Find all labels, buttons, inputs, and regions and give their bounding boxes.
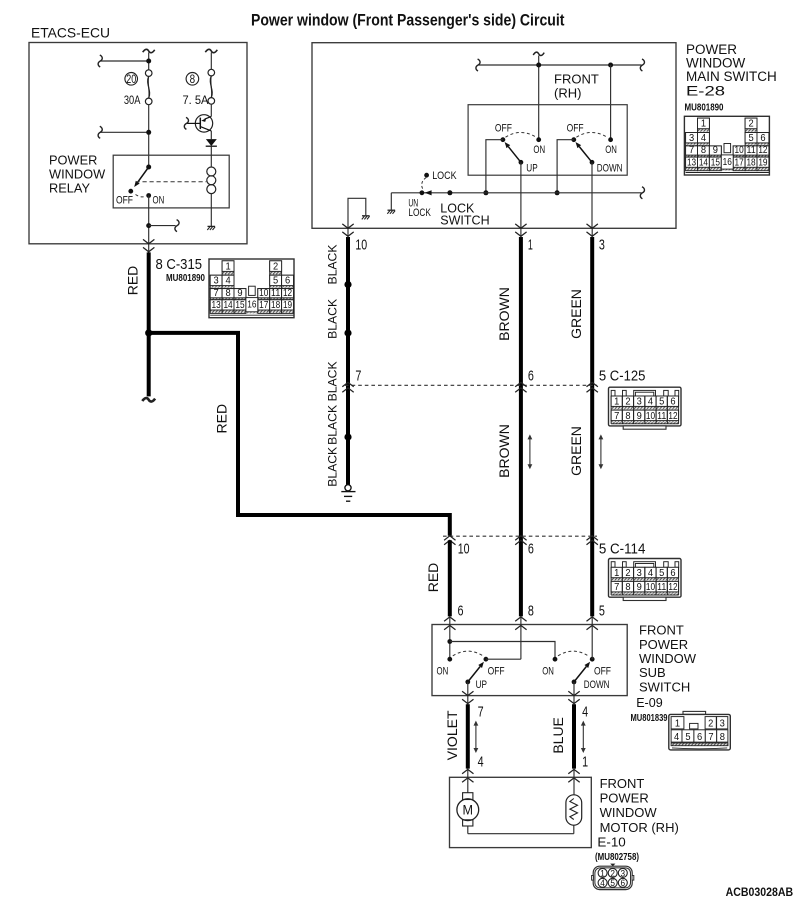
svg-text:4: 4 — [648, 396, 653, 408]
svg-text:MAIN SWITCH: MAIN SWITCH — [686, 69, 777, 84]
svg-text:DOWN: DOWN — [597, 162, 623, 174]
svg-text:RED: RED — [125, 266, 141, 296]
svg-text:LOCK: LOCK — [408, 207, 431, 219]
svg-text:1: 1 — [582, 753, 588, 770]
wire: motor to circuit breaker — [467, 826, 469, 834]
chevrons at C-125 black pin 7 — [342, 382, 353, 386]
svg-text:WINDOW: WINDOW — [600, 805, 658, 820]
svg-text:(MU802758): (MU802758) — [595, 851, 639, 863]
svg-text:6: 6 — [458, 602, 464, 619]
svg-text:FRONT: FRONT — [600, 776, 645, 791]
dashed travel arc DOWN switch — [576, 132, 607, 137]
svg-text:POWER: POWER — [639, 637, 688, 652]
wire: sub UP common to pin 7 — [467, 682, 469, 696]
wire: DOWN OFF contact to lock bus — [557, 140, 574, 193]
svg-text:8: 8 — [720, 731, 725, 743]
svg-text:12: 12 — [283, 287, 292, 299]
svg-text:13: 13 — [687, 156, 696, 168]
svg-text:8: 8 — [528, 602, 534, 619]
chevrons at C-125 brown pin 6 — [515, 382, 526, 386]
svg-text:13: 13 — [212, 299, 221, 311]
node: stub junction lower — [100, 131, 149, 133]
UP switch ON contact — [536, 137, 541, 142]
lock switch LOCK contact — [424, 173, 429, 178]
node: RED junction — [145, 329, 152, 336]
svg-text:11: 11 — [746, 144, 755, 156]
svg-text:8: 8 — [190, 74, 196, 86]
svg-text:E-10: E-10 — [597, 835, 625, 850]
dashed travel arc relay OFF-ON — [136, 195, 147, 197]
svg-text:7: 7 — [689, 144, 694, 156]
node: feed junction — [447, 639, 452, 644]
UP switch OFF contact — [501, 137, 506, 142]
dashed travel arc sub DOWN — [558, 651, 588, 656]
svg-text:16: 16 — [247, 299, 256, 311]
wire: battery into main switch (squiggle top) — [533, 52, 544, 55]
sub DOWN switch common — [572, 680, 577, 685]
bus wire across top of main switch — [479, 64, 642, 66]
svg-text:OFF: OFF — [116, 195, 133, 207]
svg-text:2: 2 — [708, 718, 713, 730]
lock switch pivot node — [447, 190, 452, 195]
relay ON contact — [146, 193, 151, 198]
svg-text:6: 6 — [528, 367, 534, 384]
node: stub junction upper — [100, 60, 149, 62]
svg-text:30A: 30A — [124, 93, 140, 107]
svg-text:8: 8 — [625, 581, 630, 593]
svg-text:5: 5 — [659, 396, 664, 408]
ground: relay coil chassis ground — [208, 225, 216, 227]
front power window motor box (E-10) — [450, 777, 592, 847]
diode D1 — [206, 139, 217, 146]
wire: main switch internal ground L (pin 10) — [348, 198, 366, 228]
svg-text:MU801890: MU801890 — [685, 102, 724, 114]
wire: bus to DOWN switch ON contact — [610, 65, 612, 140]
svg-text:3: 3 — [599, 236, 605, 253]
svg-text:5: 5 — [685, 731, 690, 743]
svg-text:WINDOW: WINDOW — [639, 651, 697, 666]
svg-text:ON: ON — [542, 666, 554, 678]
svg-text:8: 8 — [225, 287, 230, 299]
DOWN switch ON contact — [608, 137, 613, 142]
chevrons at C-114 green pin 5 — [587, 536, 598, 540]
svg-text:2: 2 — [273, 260, 278, 272]
svg-text:BROWN: BROWN — [496, 287, 512, 341]
node: off1 joins lock bus — [483, 190, 488, 195]
svg-text:4: 4 — [701, 132, 706, 144]
svg-text:BLACK: BLACK — [326, 245, 340, 285]
wire: UP OFF contact to lock bus — [486, 140, 503, 193]
svg-text:18: 18 — [746, 156, 755, 168]
svg-text:11: 11 — [271, 287, 280, 299]
svg-text:POWER: POWER — [49, 153, 97, 168]
svg-text:BLACK: BLACK — [326, 361, 340, 401]
svg-text:3: 3 — [720, 718, 725, 730]
ground: body ground at end of BLACK wire — [345, 485, 351, 491]
lock switch bus wire — [391, 192, 641, 194]
svg-text:GREEN: GREEN — [568, 289, 584, 339]
svg-text:2: 2 — [625, 567, 630, 579]
svg-text:9: 9 — [637, 410, 642, 422]
svg-text:9: 9 — [237, 287, 242, 299]
svg-text:1: 1 — [614, 396, 619, 408]
dashed travel arc sub UP — [453, 651, 483, 656]
svg-text:RED: RED — [425, 563, 441, 593]
chevrons at C-114 brown pin 6 — [515, 536, 526, 540]
svg-text:1: 1 — [225, 260, 230, 272]
wire: ON contact to connector C-315 — [148, 196, 150, 244]
svg-text:BLACK: BLACK — [326, 447, 340, 487]
wire RED C-114 to sub switch (thick) — [448, 540, 452, 616]
svg-text:E-09: E-09 — [636, 695, 663, 710]
svg-text:10: 10 — [735, 144, 744, 156]
wire: fuse 20 to relay contact — [148, 105, 150, 167]
svg-text:E-28: E-28 — [686, 84, 725, 99]
svg-text:8 C-315: 8 C-315 — [156, 256, 203, 273]
svg-text:4: 4 — [478, 753, 484, 770]
wire: red feed inside sub switch — [449, 625, 451, 659]
wire RED continuation downward with end squiggle — [147, 333, 151, 397]
svg-text:BROWN: BROWN — [496, 424, 512, 478]
lock switch armature arrow (in UNLOCK position) — [425, 190, 432, 195]
node: bus junction at DOWN switch supply — [608, 63, 613, 68]
svg-text:3: 3 — [637, 396, 642, 408]
dashed travel arc lock switch — [422, 178, 427, 191]
chevrons: black wire leaving main switch pin 10 — [347, 228, 349, 237]
svg-text:FRONT: FRONT — [639, 623, 684, 638]
svg-text:2: 2 — [625, 396, 630, 408]
sub DOWN armature — [574, 666, 586, 681]
DOWN switch common node — [590, 160, 595, 165]
svg-text:MU801890: MU801890 — [166, 272, 205, 284]
motor M1 (window motor) — [463, 793, 473, 800]
svg-text:M: M — [463, 803, 474, 818]
chevrons: brown wire entering sub switch pin 8 — [520, 616, 522, 625]
harness routing arrow (brown) — [529, 438, 531, 465]
chevrons: blue wire leaving sub switch pin 4 — [573, 696, 575, 705]
chevrons: violet wire leaving sub switch pin 7 — [467, 696, 469, 705]
svg-text:15: 15 — [235, 299, 244, 311]
connector E-10 motor pin diagram — [592, 864, 634, 890]
wire: lock bus to chassis ground (left) — [390, 193, 392, 210]
svg-text:BLACK: BLACK — [326, 405, 340, 445]
svg-text:GREEN: GREEN — [568, 426, 584, 476]
svg-text:14: 14 — [223, 299, 232, 311]
svg-text:5: 5 — [610, 878, 615, 889]
power window main switch box (E-28) — [312, 43, 676, 229]
harness routing arrow (blue) — [582, 725, 584, 749]
node: bus junction at UP switch supply — [536, 63, 541, 68]
node: black splice 2 — [344, 329, 351, 336]
svg-text:5 C-114: 5 C-114 — [599, 541, 646, 558]
svg-text:11: 11 — [657, 410, 666, 422]
sub DOWN switch OFF contact — [590, 657, 595, 662]
wire GREEN pin3 (thick) — [590, 237, 594, 616]
svg-text:10: 10 — [355, 236, 367, 253]
dashed link armature to coil — [136, 181, 207, 183]
svg-text:ON: ON — [533, 144, 545, 156]
svg-text:8: 8 — [625, 410, 630, 422]
connector C-315 pin diagram — [209, 259, 294, 318]
svg-text:7: 7 — [214, 287, 219, 299]
svg-text:2: 2 — [748, 118, 753, 130]
svg-text:(RH): (RH) — [554, 86, 581, 101]
connector C-125 pin diagram — [609, 387, 682, 429]
power window relay box — [113, 155, 229, 208]
relay contact common node — [146, 165, 151, 170]
relay armature (shown OFF) — [138, 167, 149, 182]
svg-text:20: 20 — [126, 74, 136, 86]
wire: relay coil to ground — [210, 193, 212, 226]
front power window sub switch box (E-09) — [432, 625, 627, 696]
svg-text:UP: UP — [526, 162, 537, 174]
svg-text:9: 9 — [713, 144, 718, 156]
svg-text:RELAY: RELAY — [49, 181, 90, 196]
wire: transistor to diode — [210, 131, 212, 139]
svg-text:POWER: POWER — [600, 791, 649, 806]
svg-text:7: 7 — [355, 367, 361, 384]
chevrons: blue wire entering motor pin 1 — [573, 768, 575, 778]
main switch inner box — [468, 105, 627, 176]
connector E-09 pin diagram — [669, 711, 731, 750]
svg-text:OFF: OFF — [488, 666, 505, 678]
svg-text:19: 19 — [283, 299, 292, 311]
sub UP switch common — [465, 680, 470, 685]
sub UP switch OFF contact — [484, 657, 489, 662]
wire BROWN pin1 (thick) — [519, 237, 523, 616]
connector E-28 pin diagram — [684, 116, 769, 175]
dashed travel arc UP switch — [506, 132, 537, 137]
svg-text:7: 7 — [614, 410, 619, 422]
chevrons: wire leaving ETACS-ECU at C-315 pin 8 — [148, 244, 150, 253]
svg-text:5: 5 — [659, 567, 664, 579]
wire RED branch to front door (thick, routed right-down-right) — [149, 333, 450, 536]
svg-text:ON: ON — [437, 666, 449, 678]
sub UP switch ON contact — [447, 657, 452, 662]
sub UP armature — [468, 666, 480, 681]
UP switch armature — [508, 147, 521, 163]
node: black splice 3 — [344, 433, 351, 440]
svg-text:OFF: OFF — [567, 122, 584, 134]
wire: sub DOWN common to pin 4 — [573, 682, 575, 696]
svg-text:5: 5 — [748, 132, 753, 144]
svg-text:19: 19 — [758, 156, 767, 168]
svg-text:ON: ON — [153, 195, 165, 207]
node: stub to other circuit — [146, 223, 151, 228]
ground: main switch chassis ground — [362, 215, 370, 217]
svg-text:ACB03028AB: ACB03028AB — [726, 887, 794, 899]
svg-text:MU801839: MU801839 — [631, 712, 668, 724]
wire: green to sub DOWN OFF contact — [591, 625, 593, 659]
svg-text:12: 12 — [668, 581, 677, 593]
svg-text:3: 3 — [689, 132, 694, 144]
svg-text:10: 10 — [646, 410, 655, 422]
DOWN switch armature — [579, 147, 592, 163]
wire: brown to sub UP OFF contact — [520, 625, 522, 659]
circuit breaker (in motor) — [566, 795, 582, 825]
svg-text:BLUE: BLUE — [550, 717, 566, 754]
svg-text:SUB: SUB — [639, 665, 666, 680]
svg-text:Power window (Front Passenger': Power window (Front Passenger's side) Ci… — [251, 10, 565, 29]
svg-text:1: 1 — [701, 118, 706, 130]
wire: fuse 8 to transistor — [210, 104, 212, 116]
svg-text:RED: RED — [214, 404, 230, 434]
chevrons at C-114 red pin 10 — [444, 536, 455, 540]
svg-text:WINDOW: WINDOW — [49, 167, 106, 182]
svg-text:9: 9 — [637, 581, 642, 593]
svg-text:DOWN: DOWN — [584, 679, 610, 691]
relay OFF contact — [128, 189, 133, 194]
fuse 8 7.5A — [208, 69, 215, 76]
node: off2 joins lock bus — [555, 190, 560, 195]
wire: diode to relay coil — [210, 146, 212, 167]
svg-text:5: 5 — [273, 275, 278, 287]
wire: DOWN common down and out — [591, 162, 593, 228]
relay coil — [207, 167, 216, 176]
wire-break at transistor base — [184, 117, 188, 129]
svg-text:3: 3 — [637, 567, 642, 579]
svg-text:12: 12 — [668, 410, 677, 422]
svg-text:6: 6 — [621, 878, 626, 889]
sub DOWN switch ON contact — [553, 657, 558, 662]
chevrons: red wire entering sub switch pin 6 — [449, 616, 451, 625]
svg-text:11: 11 — [657, 581, 666, 593]
UP switch common node — [519, 160, 524, 165]
svg-text:LOCK: LOCK — [432, 170, 457, 182]
svg-text:OFF: OFF — [495, 122, 512, 134]
svg-text:7: 7 — [614, 581, 619, 593]
chevrons: green wire entering sub switch pin 5 — [591, 616, 593, 625]
label fuse number 20 — [125, 73, 138, 86]
wire: UP common down and out — [520, 162, 522, 228]
svg-text:10: 10 — [458, 541, 470, 558]
svg-text:3: 3 — [214, 275, 219, 287]
ground: lock bus chassis ground — [388, 209, 396, 211]
svg-text:BLACK: BLACK — [326, 299, 340, 339]
wire BLACK pin10 to body ground (thick) — [346, 237, 350, 485]
svg-text:UP: UP — [476, 679, 487, 691]
svg-text:ETACS-ECU: ETACS-ECU — [31, 25, 110, 41]
svg-text:6: 6 — [697, 731, 702, 743]
transistor Q1 (PNP driver) — [195, 115, 212, 132]
chevrons: green wire leaving main switch pin 3 — [591, 228, 593, 237]
svg-text:6: 6 — [760, 132, 765, 144]
svg-text:15: 15 — [711, 156, 720, 168]
svg-text:16: 16 — [723, 156, 732, 168]
chevrons at C-125 green pin 5 — [587, 382, 598, 386]
wire: violet into motor — [467, 778, 469, 793]
harness routing arrow (green) — [600, 438, 602, 465]
wire VIOLET pin 7 to motor pin 4 (thick) — [466, 704, 470, 768]
svg-text:VIOLET: VIOLET — [444, 710, 460, 760]
ETACS-ECU box — [29, 43, 247, 244]
svg-text:OFF: OFF — [594, 666, 611, 678]
lock switch UNLOCK contact — [420, 190, 425, 195]
svg-text:4: 4 — [674, 731, 679, 743]
svg-text:8: 8 — [701, 144, 706, 156]
svg-text:6: 6 — [528, 541, 534, 558]
DOWN switch OFF contact — [571, 137, 576, 142]
svg-text:MOTOR (RH): MOTOR (RH) — [600, 820, 679, 835]
fuse 20 30A — [145, 70, 152, 77]
svg-text:17: 17 — [259, 299, 268, 311]
svg-text:FRONT: FRONT — [554, 72, 599, 87]
svg-text:7. 5A: 7. 5A — [183, 93, 209, 107]
wire: battery feed into fuse 20 (continuation squiggle) — [143, 49, 155, 52]
svg-text:18: 18 — [271, 299, 280, 311]
label fuse number 8 — [186, 73, 199, 86]
svg-text:1: 1 — [614, 567, 619, 579]
chevrons: violet wire entering motor pin 4 — [467, 768, 469, 778]
svg-text:6: 6 — [285, 275, 290, 287]
svg-text:SWITCH: SWITCH — [440, 213, 489, 227]
svg-text:SWITCH: SWITCH — [639, 679, 690, 694]
harness routing arrow (violet) — [475, 725, 477, 749]
svg-text:4: 4 — [600, 878, 605, 889]
svg-text:5: 5 — [599, 602, 605, 619]
svg-text:12: 12 — [758, 144, 767, 156]
svg-text:1: 1 — [528, 236, 533, 253]
wire: battery feed into fuse 8 (continuation squiggle) — [205, 49, 217, 52]
svg-text:5 C-125: 5 C-125 — [599, 367, 646, 384]
svg-text:10: 10 — [259, 287, 268, 299]
svg-text:6: 6 — [670, 567, 675, 579]
svg-text:14: 14 — [699, 156, 708, 168]
svg-text:1: 1 — [675, 718, 680, 730]
node: black splice 1 — [344, 281, 351, 288]
svg-text:7: 7 — [708, 731, 713, 743]
connector C-114 pin diagram — [609, 559, 682, 601]
svg-text:4: 4 — [225, 275, 230, 287]
svg-text:7: 7 — [478, 704, 484, 721]
wire BLUE pin 4 to motor pin 1 (thick) — [572, 704, 576, 768]
wire: feed over to DOWN ON contact — [450, 642, 555, 660]
svg-text:10: 10 — [646, 581, 655, 593]
svg-text:ON: ON — [605, 144, 617, 156]
svg-text:17: 17 — [735, 156, 744, 168]
connector C-125 in-line (dashed) — [345, 384, 597, 386]
wire: blue into breaker — [573, 778, 575, 795]
svg-text:4: 4 — [582, 704, 588, 721]
svg-text:6: 6 — [670, 396, 675, 408]
chevrons: brown wire leaving main switch pin 1 — [520, 228, 522, 237]
connector C-114 in-line (dashed) — [443, 535, 597, 537]
svg-text:4: 4 — [648, 567, 653, 579]
wire RED from C-315 (thick) — [147, 252, 151, 333]
